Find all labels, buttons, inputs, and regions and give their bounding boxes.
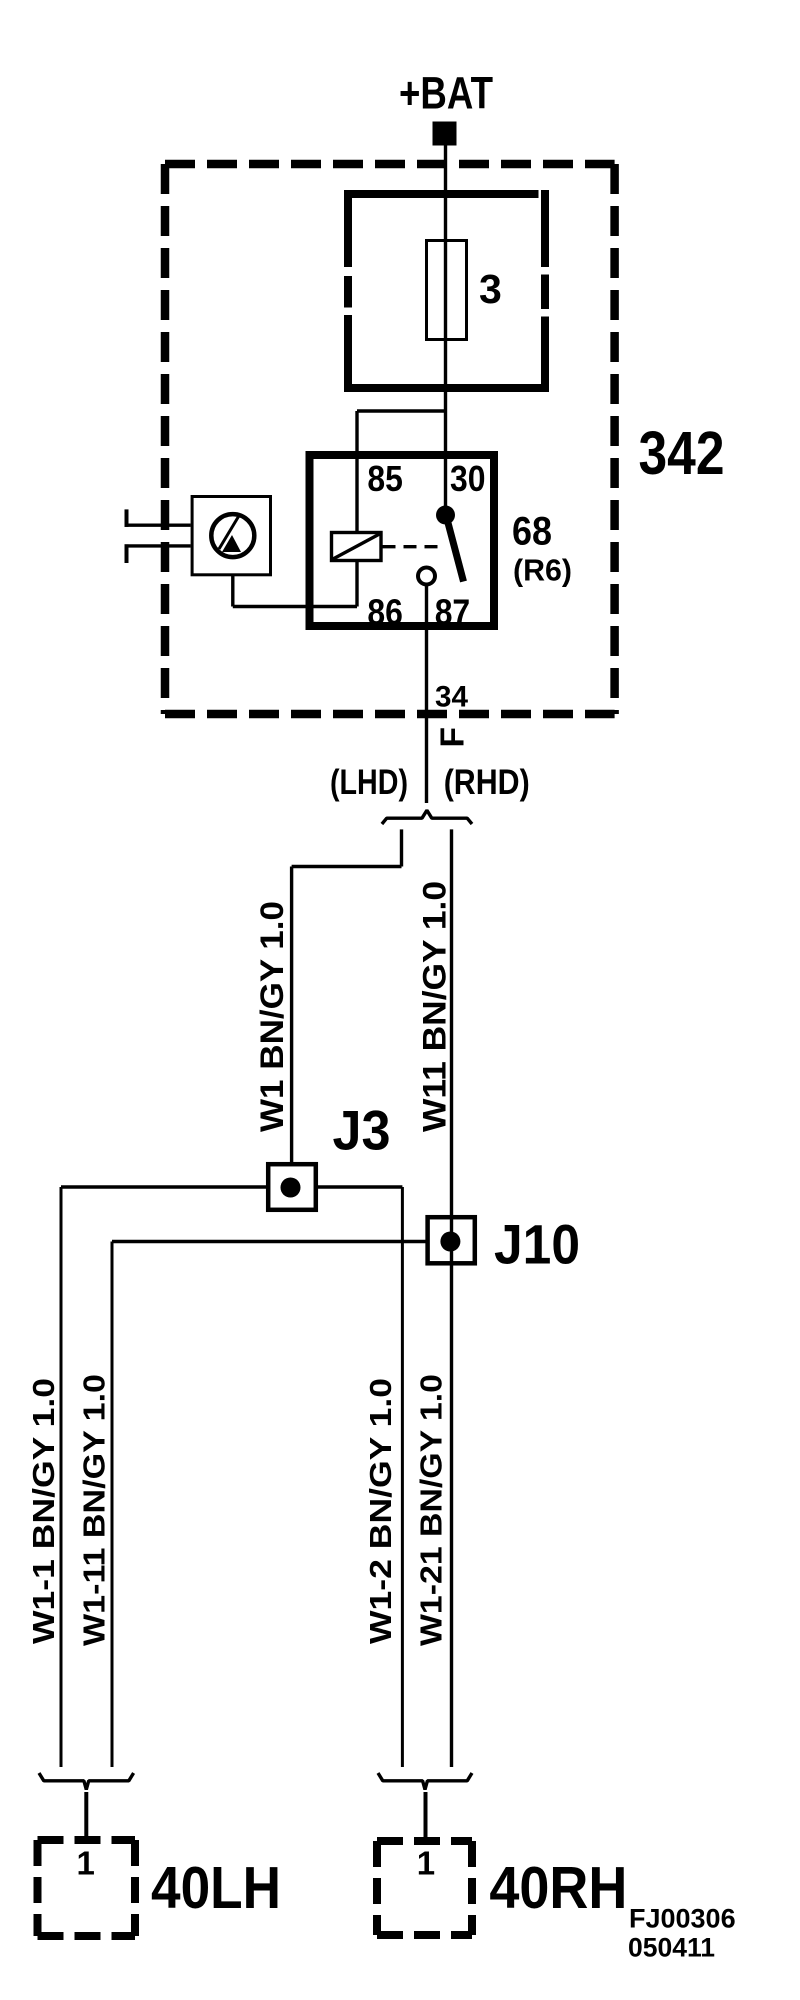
relay box 68 (R6): [310, 455, 495, 626]
pump symbol: [211, 514, 254, 557]
svg-text:40LH: 40LH: [151, 1855, 281, 1921]
svg-text:(RHD): (RHD): [444, 763, 530, 802]
svg-text:W1-1 BN/GY 1.0: W1-1 BN/GY 1.0: [26, 1378, 61, 1644]
svg-text:FJ00306: FJ00306: [629, 1904, 736, 1934]
wire pin 87 down: [425, 585, 428, 804]
junction J10 box: [428, 1217, 475, 1263]
connector line upper: [125, 524, 191, 527]
svg-text:40RH: 40RH: [489, 1855, 627, 1921]
junction J10 dot: [440, 1232, 460, 1252]
wire LHD branch horizontal: [292, 865, 402, 868]
svg-text:86: 86: [367, 591, 403, 632]
svg-text:+BAT: +BAT: [399, 68, 493, 119]
svg-text:W1-11 BN/GY 1.0: W1-11 BN/GY 1.0: [77, 1374, 112, 1646]
wire into 40RH: [424, 1792, 428, 1843]
wire into 40LH: [84, 1792, 88, 1843]
relay contact pin 30 node: [436, 506, 455, 525]
pump box: [192, 497, 270, 575]
relay switch arm: [447, 519, 464, 582]
wire W11 vertical through J10: [450, 829, 453, 1767]
wire LHD branch vertical upper: [400, 829, 403, 866]
relay dashed actuation link: [383, 545, 442, 548]
svg-text:34: 34: [435, 681, 469, 714]
svg-text:050411: 050411: [628, 1932, 715, 1962]
wire pump to pin 86 horizontal: [233, 605, 357, 608]
wire W1 vertical to J3: [290, 867, 293, 1165]
svg-text:342: 342: [639, 419, 725, 487]
wire +BAT to relay pin 30: [444, 145, 447, 515]
wire branch horizontal to pin 85: [357, 409, 446, 412]
svg-text:W1-21 BN/GY 1.0: W1-21 BN/GY 1.0: [414, 1374, 449, 1646]
brace 40RH merge: [378, 1773, 472, 1790]
wire J10 left horizontal: [112, 1240, 428, 1243]
junction J3 dot: [281, 1178, 301, 1198]
wire W1-1 vertical: [60, 1187, 63, 1767]
fuse element 3: [427, 241, 467, 340]
connector line lower: [125, 544, 191, 547]
svg-text:68: 68: [512, 510, 552, 554]
svg-text:(LHD): (LHD): [330, 763, 408, 802]
wire J3 right horizontal: [318, 1185, 402, 1188]
svg-text:W11 BN/GY 1.0: W11 BN/GY 1.0: [417, 881, 453, 1132]
box 342 (dashed component boundary): [165, 164, 615, 714]
connector tick lower: [125, 544, 129, 563]
wire W1-2 vertical: [401, 1187, 404, 1767]
brace 40LH merge: [39, 1773, 134, 1790]
node +BAT terminal: [433, 122, 457, 146]
svg-text:1: 1: [417, 1845, 435, 1882]
svg-text:3: 3: [479, 266, 502, 312]
svg-text:F: F: [435, 727, 472, 747]
wire pin 85 vertical: [355, 411, 358, 531]
relay coil: [332, 533, 382, 561]
svg-text:1: 1: [77, 1845, 95, 1882]
svg-text:J3: J3: [333, 1098, 391, 1161]
wire pump down: [231, 575, 234, 607]
brace split LHD/RHD: [382, 810, 472, 824]
fuse box (dashed): [344, 190, 549, 392]
svg-text:30: 30: [450, 458, 486, 499]
svg-text:W1-2 BN/GY 1.0: W1-2 BN/GY 1.0: [363, 1378, 398, 1644]
wire J3 left horizontal: [61, 1185, 266, 1188]
svg-text:W1 BN/GY 1.0: W1 BN/GY 1.0: [254, 901, 290, 1132]
wire coil bottom to pin 86: [355, 562, 358, 607]
connector 40RH box (dashed): [377, 1841, 472, 1935]
connector tick upper: [125, 509, 129, 527]
connector 40LH box (dashed): [38, 1840, 136, 1936]
svg-text:87: 87: [435, 591, 471, 632]
junction J3 box: [268, 1164, 316, 1210]
wire W1-11 vertical: [111, 1242, 114, 1768]
svg-text:J10: J10: [494, 1213, 580, 1276]
svg-text:85: 85: [367, 458, 403, 499]
relay contact pin 87 terminal: [418, 568, 435, 585]
svg-text:(R6): (R6): [513, 554, 572, 588]
